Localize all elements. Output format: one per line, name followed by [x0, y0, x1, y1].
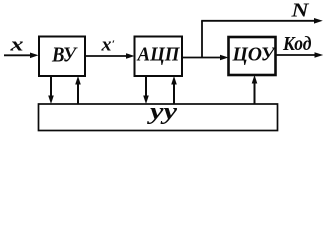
block TsOU (ЦОУ) [229, 37, 276, 75]
block UU (УУ) control unit [39, 104, 278, 131]
svg-text:АЦП: АЦП [136, 44, 181, 66]
svg-text:′: ′ [112, 39, 115, 51]
wire branch up to N line [201, 21, 203, 58]
svg-text:x: x [100, 35, 112, 56]
svg-text:x: x [9, 35, 24, 56]
wire from АЦП to ЦОУ [182, 57, 222, 59]
wire УУ up to АЦП with up arrow [173, 82, 175, 104]
wire output Код arrow from ЦОУ [276, 54, 317, 56]
wire АЦП down to УУ with down arrow [145, 76, 147, 98]
svg-text:ВУ: ВУ [51, 43, 78, 67]
wire УУ up to ЦОУ with up arrow [254, 81, 256, 104]
svg-text:уу: уу [146, 99, 177, 125]
wire УУ up to ВУ with up arrow [77, 82, 79, 104]
svg-text:N: N [290, 0, 310, 22]
svg-text:Код: Код [282, 33, 311, 55]
wire ВУ down to УУ with down arrow [50, 76, 52, 98]
svg-text:ЦОУ: ЦОУ [232, 44, 277, 66]
block ADC (АЦП) [135, 37, 183, 77]
block VU (ВУ) [39, 37, 85, 77]
wire output N arrow [201, 20, 316, 22]
wire input x arrow into ВУ [4, 54, 32, 56]
wire x' from ВУ to АЦП [85, 55, 128, 57]
